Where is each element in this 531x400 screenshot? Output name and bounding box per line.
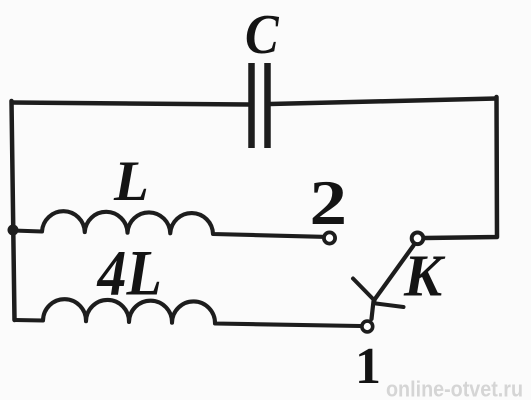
capacitor C1 left plate xyxy=(248,63,255,148)
wire top-left segment xyxy=(12,103,248,105)
switch common terminal circle xyxy=(412,233,424,245)
switch K arrow barb upper-left xyxy=(353,279,375,301)
svg-text:1: 1 xyxy=(355,338,381,395)
switch K arrow barb right xyxy=(376,304,404,308)
svg-text:4L: 4L xyxy=(97,238,162,310)
contact 1 terminal circle xyxy=(362,321,373,332)
wire left rail xyxy=(12,101,15,320)
node junction dot left xyxy=(8,225,19,236)
svg-text:L: L xyxy=(113,150,149,213)
wire top-right segment xyxy=(270,99,496,105)
switch K blade xyxy=(372,246,414,320)
svg-text:K: K xyxy=(403,243,446,309)
capacitor C1 right plate xyxy=(264,63,271,148)
svg-text:C: C xyxy=(245,2,280,65)
inductor L xyxy=(13,211,322,237)
inductor 4L xyxy=(15,299,360,326)
contact 2 terminal circle xyxy=(324,232,335,243)
svg-text:online-otvet.ru: online-otvet.ru xyxy=(386,377,523,400)
svg-text:2: 2 xyxy=(310,168,347,238)
wire right rail xyxy=(425,97,497,238)
